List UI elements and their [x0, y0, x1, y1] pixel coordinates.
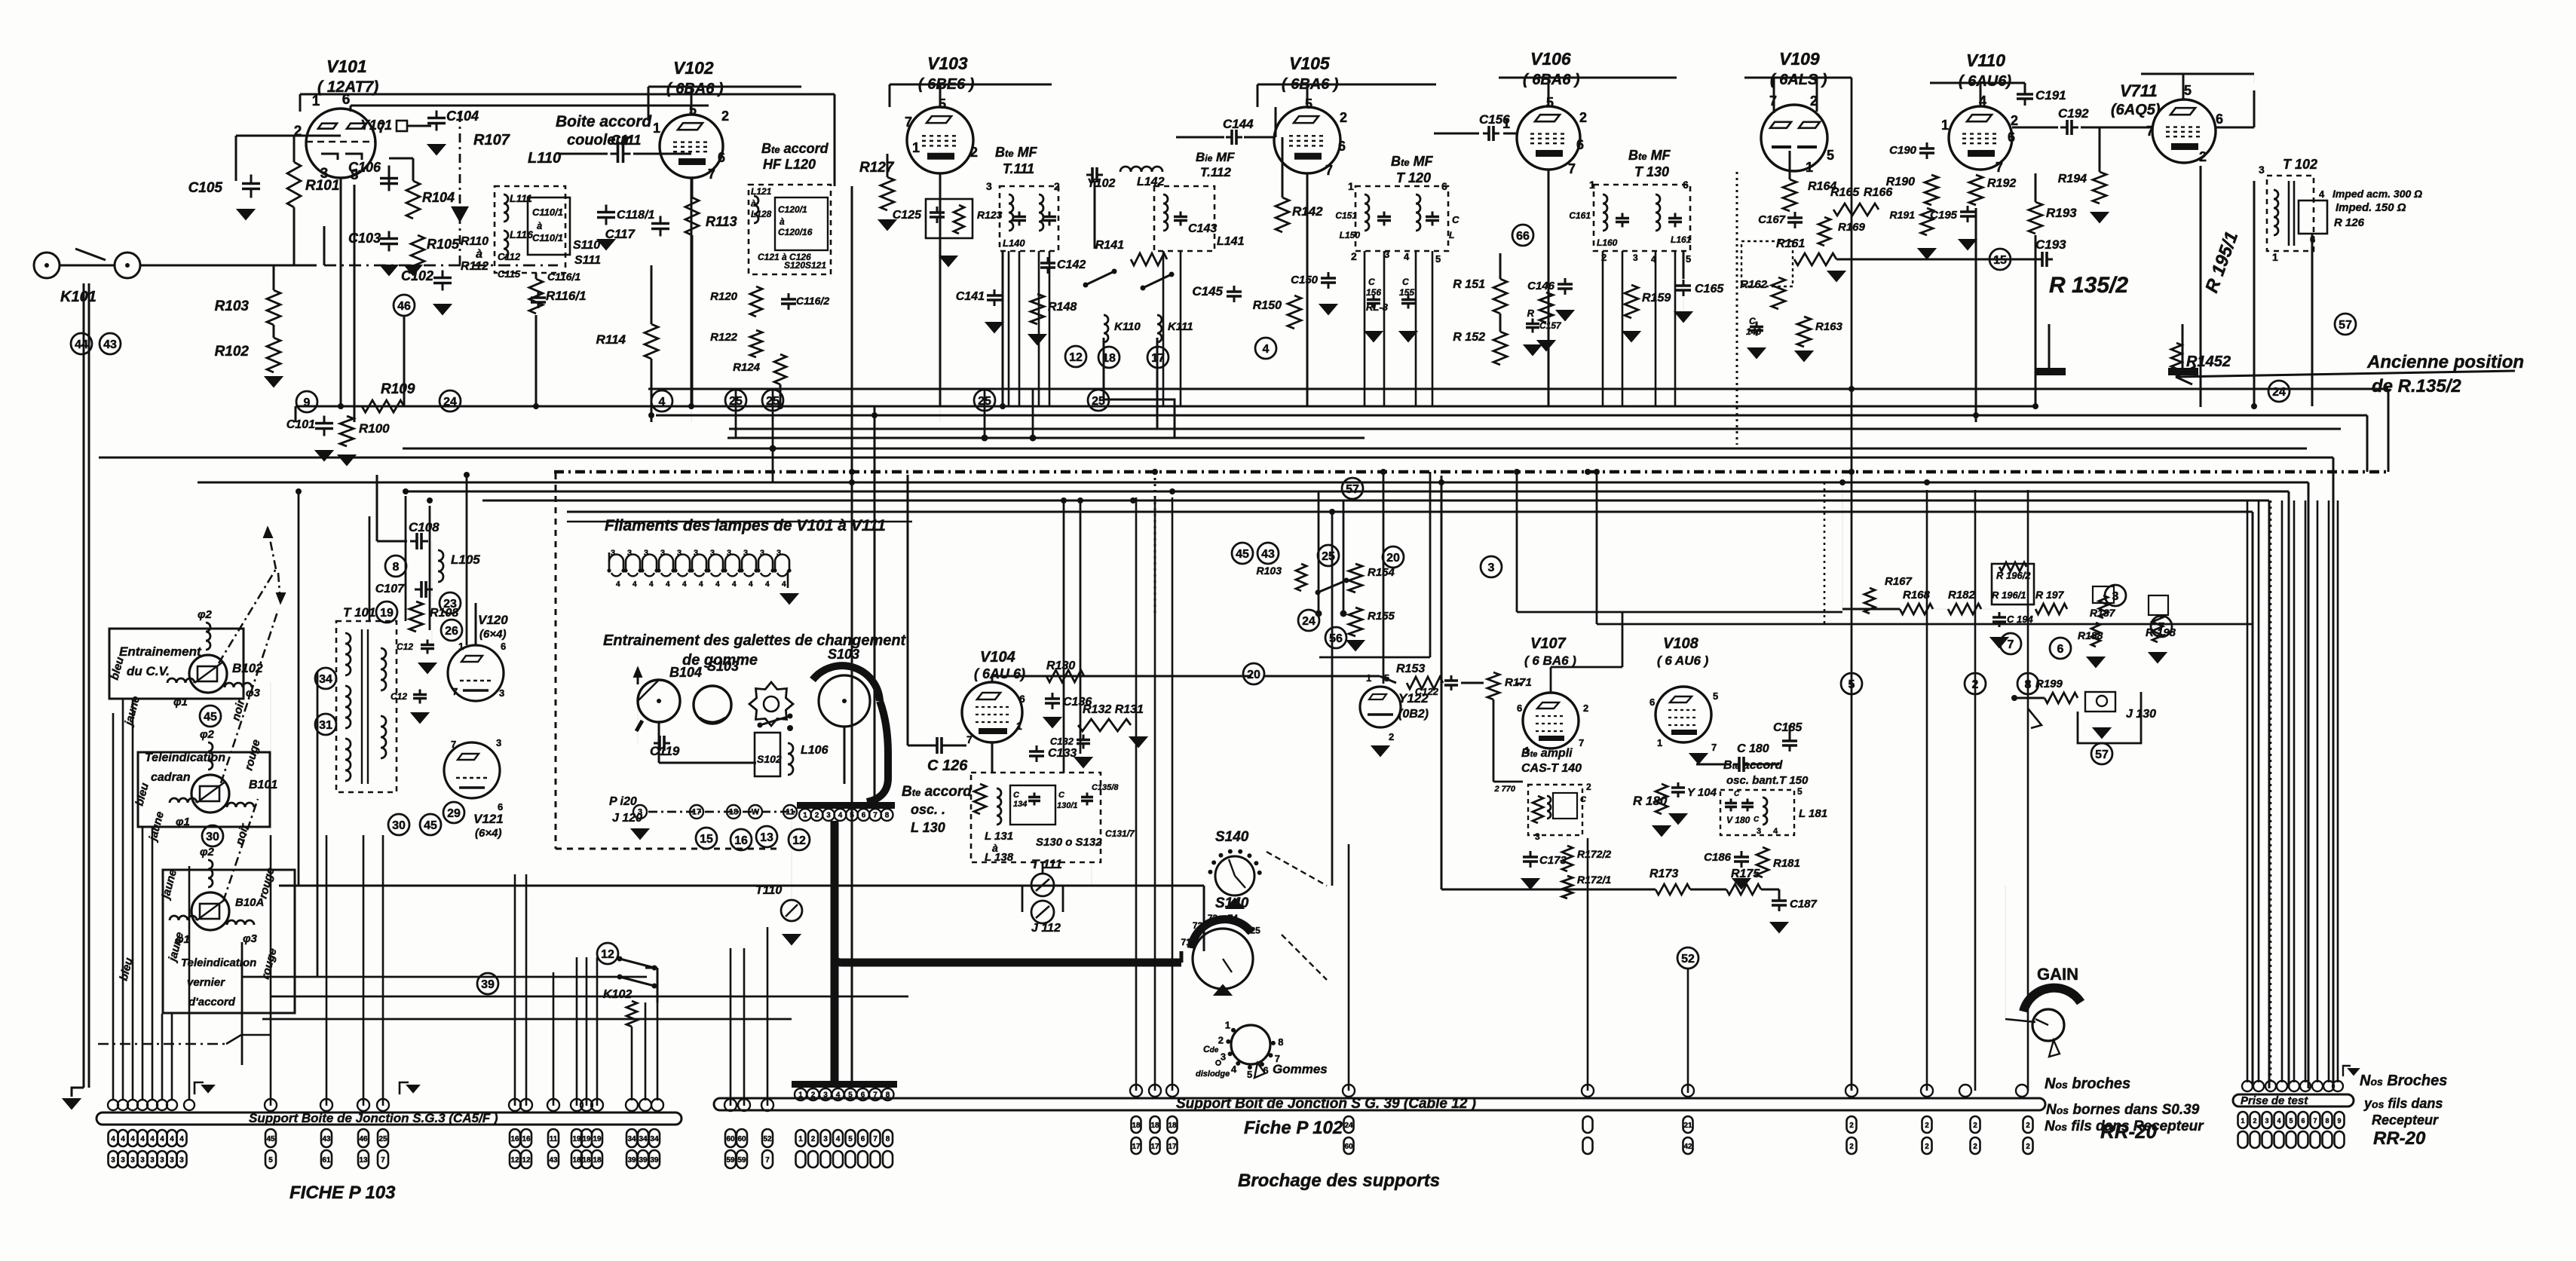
svg-text:C106: C106	[348, 160, 381, 175]
svg-text:C12: C12	[391, 691, 407, 702]
svg-text:19: 19	[593, 1135, 602, 1143]
svg-text:7: 7	[905, 115, 912, 130]
svg-text:R120: R120	[710, 290, 738, 303]
svg-text:C: C	[1402, 277, 1409, 287]
svg-text:1: 1	[1941, 118, 1949, 133]
svg-text:S120: S120	[784, 260, 805, 271]
svg-text:3: 3	[170, 1156, 174, 1165]
svg-text:45: 45	[266, 1135, 275, 1143]
svg-text:3: 3	[130, 1156, 135, 1165]
svg-text:1: 1	[312, 93, 320, 109]
svg-text:C151: C151	[1335, 210, 1357, 221]
svg-text:29: 29	[447, 807, 461, 820]
svg-text:R103: R103	[215, 298, 250, 314]
svg-text:6: 6	[2008, 130, 2015, 145]
svg-text:C102: C102	[401, 268, 433, 283]
svg-text:1: 1	[1657, 737, 1662, 748]
svg-text:S110: S110	[573, 239, 600, 252]
svg-text:34: 34	[650, 1135, 659, 1143]
svg-text:15: 15	[700, 833, 713, 846]
svg-text:18: 18	[593, 1156, 602, 1165]
svg-text:Prise de test: Prise de test	[2241, 1094, 2308, 1107]
svg-text:18: 18	[1168, 1122, 1177, 1130]
svg-text:R122: R122	[710, 331, 738, 344]
svg-text:1: 1	[1016, 720, 1022, 732]
svg-text:C107: C107	[375, 583, 405, 595]
svg-text:4: 4	[836, 1135, 841, 1143]
svg-text:C: C	[1754, 816, 1760, 824]
svg-text:8: 8	[393, 561, 400, 574]
svg-text:60: 60	[726, 1135, 735, 1143]
svg-text:6: 6	[2301, 1117, 2305, 1125]
svg-text:3: 3	[496, 737, 501, 748]
svg-text:60: 60	[737, 1135, 746, 1143]
svg-text:( 6AU6): ( 6AU6)	[1959, 73, 2011, 90]
svg-text:R190: R190	[1886, 176, 1915, 188]
svg-text:C125: C125	[893, 209, 922, 222]
svg-text:25: 25	[1092, 395, 1105, 408]
svg-text:FICHE P 103: FICHE P 103	[289, 1183, 396, 1203]
svg-text:3: 3	[611, 549, 615, 558]
svg-text:Boite accord: Boite accord	[556, 113, 652, 130]
svg-text:9: 9	[304, 396, 311, 409]
svg-text:2: 2	[1054, 180, 1060, 192]
svg-text:K101: K101	[60, 289, 96, 305]
svg-text:L140: L140	[1003, 237, 1025, 249]
svg-text:C119: C119	[650, 744, 680, 758]
svg-text:18: 18	[729, 808, 738, 817]
svg-text:6: 6	[1517, 702, 1522, 714]
svg-text:R199: R199	[2035, 678, 2063, 690]
svg-text:C133: C133	[1048, 747, 1077, 760]
svg-text:L 181: L 181	[1799, 807, 1827, 820]
svg-text:1: 1	[1348, 180, 1354, 192]
svg-text:C185: C185	[1773, 721, 1803, 734]
svg-text:C193: C193	[2035, 237, 2066, 252]
svg-text:C: C	[1013, 791, 1020, 800]
svg-text:T.111: T.111	[1003, 161, 1034, 176]
svg-text:R167: R167	[1885, 575, 1913, 588]
svg-text:25: 25	[1322, 550, 1335, 563]
svg-text:2: 2	[1925, 1143, 1929, 1151]
svg-text:6: 6	[861, 1135, 865, 1143]
svg-text:43: 43	[103, 338, 117, 351]
svg-text:1: 1	[2241, 1117, 2244, 1125]
svg-text:4: 4	[682, 580, 687, 589]
svg-text:4: 4	[782, 580, 786, 589]
svg-text:7: 7	[1711, 742, 1717, 753]
svg-text:18: 18	[1132, 1122, 1141, 1130]
svg-text:34: 34	[639, 1135, 648, 1143]
svg-text:24: 24	[2272, 386, 2286, 399]
svg-text:24: 24	[443, 396, 457, 409]
svg-text:2: 2	[1973, 1122, 1977, 1130]
svg-text:17: 17	[1132, 1143, 1141, 1151]
svg-text:C115: C115	[498, 268, 521, 280]
svg-text:R 197: R 197	[2035, 589, 2065, 601]
svg-text:T.112: T.112	[1200, 165, 1231, 179]
svg-text:C150: C150	[1291, 274, 1319, 286]
svg-text:R162: R162	[1740, 278, 1768, 291]
svg-text:R148: R148	[1048, 301, 1077, 314]
svg-text:8: 8	[2325, 1117, 2329, 1125]
svg-text:GAIN: GAIN	[2037, 965, 2078, 984]
svg-text:R172/1: R172/1	[1577, 874, 1611, 886]
svg-text:C: C	[1452, 214, 1460, 225]
svg-text:2: 2	[970, 145, 978, 160]
svg-text:1: 1	[458, 641, 464, 652]
svg-text:25: 25	[978, 395, 991, 408]
svg-text:17: 17	[1150, 1143, 1159, 1151]
svg-text:S121: S121	[805, 260, 826, 271]
svg-text:RL-8: RL-8	[1366, 301, 1389, 313]
svg-text:C111: C111	[611, 133, 641, 148]
svg-text:3: 3	[760, 549, 764, 558]
svg-text:C157: C157	[1539, 320, 1562, 331]
svg-text:T 120: T 120	[1396, 170, 1431, 185]
svg-text:6: 6	[2057, 643, 2064, 656]
svg-text:Bie MF: Bie MF	[1196, 150, 1235, 164]
svg-text:Recepteur: Recepteur	[2372, 1113, 2439, 1128]
svg-text:3: 3	[986, 180, 992, 192]
svg-text:20: 20	[1386, 552, 1400, 565]
svg-text:2: 2	[1925, 1122, 1929, 1130]
svg-text:39: 39	[650, 1156, 659, 1165]
svg-text:R 196/1: R 196/1	[1992, 589, 2026, 601]
svg-text:3: 3	[1757, 827, 1761, 836]
svg-text:3: 3	[694, 549, 698, 558]
svg-text:1: 1	[2272, 251, 2278, 263]
svg-text:Entrainement: Entrainement	[119, 644, 202, 659]
svg-text:20: 20	[1247, 669, 1260, 681]
svg-text:3: 3	[499, 687, 504, 699]
svg-text:3: 3	[1535, 831, 1540, 842]
svg-text:Nos bornes dans S0.39: Nos bornes dans S0.39	[2046, 1102, 2200, 1118]
svg-text:C192: C192	[2058, 106, 2089, 121]
svg-text:16: 16	[734, 834, 748, 847]
svg-text:3: 3	[140, 1156, 145, 1165]
svg-text:3: 3	[638, 808, 642, 817]
svg-text:39: 39	[639, 1156, 648, 1165]
svg-text:4: 4	[121, 1135, 125, 1143]
svg-text:CAS-T 140: CAS-T 140	[1521, 762, 1582, 775]
svg-text:39: 39	[627, 1156, 636, 1165]
svg-text:φ2: φ2	[200, 846, 215, 859]
svg-text:R102: R102	[215, 344, 250, 360]
svg-text:5: 5	[848, 1135, 853, 1143]
svg-text:17: 17	[692, 808, 701, 817]
svg-text:C167: C167	[1758, 213, 1786, 226]
svg-text:yos fils dans: yos fils dans	[2363, 1096, 2443, 1111]
svg-text:60: 60	[1344, 1143, 1353, 1151]
svg-text:L142: L142	[1137, 176, 1165, 188]
svg-text:B101: B101	[249, 779, 277, 791]
svg-text:Support Boite de Jonction: Support Boite de Jonction S.G.3 (CA5/F )	[249, 1111, 498, 1125]
svg-text:T 111: T 111	[1031, 857, 1062, 871]
svg-text:24: 24	[1302, 615, 1316, 628]
svg-text:S140: S140	[1215, 829, 1249, 845]
svg-text:C101: C101	[286, 418, 315, 431]
svg-text:7: 7	[1996, 160, 2003, 175]
svg-text:S130 o S132: S130 o S132	[1036, 836, 1102, 849]
svg-text:R123: R123	[977, 209, 1003, 221]
svg-text:V103: V103	[927, 54, 968, 73]
svg-text:V120: V120	[478, 613, 508, 627]
svg-text:J 112: J 112	[1031, 922, 1061, 935]
svg-text:2: 2	[1351, 250, 1357, 262]
svg-text:45: 45	[204, 711, 217, 724]
svg-text:( 6 AU6 ): ( 6 AU6 )	[1657, 653, 1709, 668]
svg-text:5: 5	[1827, 148, 1834, 163]
svg-text:R103: R103	[1257, 565, 1282, 577]
svg-text:L128: L128	[751, 209, 772, 219]
svg-text:C110/1: C110/1	[532, 232, 563, 243]
svg-text:6: 6	[718, 150, 725, 165]
svg-text:R181: R181	[1773, 857, 1800, 870]
svg-text:C110/1: C110/1	[532, 207, 563, 218]
svg-text:19: 19	[572, 1135, 581, 1143]
svg-text:C187: C187	[1790, 898, 1818, 911]
svg-text:12: 12	[1069, 351, 1083, 364]
svg-text:R127: R127	[859, 160, 895, 176]
svg-text:7: 7	[1568, 161, 1576, 176]
svg-text:à: à	[780, 216, 785, 227]
svg-text:74: 74	[1228, 913, 1239, 923]
svg-text:C195: C195	[1930, 209, 1958, 222]
svg-text:L: L	[1449, 230, 1454, 240]
svg-text:W: W	[752, 808, 760, 817]
svg-text:4: 4	[150, 1135, 155, 1143]
svg-text:C132: C132	[1050, 736, 1074, 747]
svg-text:C191: C191	[2035, 88, 2066, 103]
svg-text:P i20: P i20	[609, 795, 637, 808]
svg-text:4: 4	[1404, 251, 1410, 262]
svg-text:1: 1	[1589, 179, 1595, 191]
svg-text:6: 6	[1576, 137, 1584, 152]
svg-text:7: 7	[2313, 1117, 2317, 1125]
svg-text:φ1: φ1	[176, 816, 190, 828]
svg-text:R113: R113	[706, 214, 737, 229]
svg-text:5: 5	[1797, 786, 1803, 797]
svg-text:R109: R109	[381, 381, 415, 397]
svg-text:45: 45	[1236, 548, 1249, 561]
svg-text:Nos Broches: Nos Broches	[2360, 1073, 2447, 1089]
svg-text:R163: R163	[1815, 320, 1843, 333]
svg-text:2: 2	[1973, 1143, 1977, 1151]
svg-text:3: 3	[2112, 590, 2119, 603]
svg-text:3: 3	[660, 549, 665, 558]
svg-text:57: 57	[2339, 319, 2352, 332]
svg-text:R165: R165	[1830, 186, 1860, 199]
svg-text:C190: C190	[1889, 144, 1917, 157]
svg-text:5: 5	[2289, 1117, 2293, 1125]
svg-text:25: 25	[766, 395, 780, 408]
svg-text:2: 2	[2253, 1117, 2256, 1125]
svg-text:12: 12	[510, 1156, 519, 1165]
svg-text:R132 R131: R132 R131	[1083, 703, 1144, 716]
svg-text:R 151: R 151	[1453, 278, 1485, 291]
svg-text:C117: C117	[605, 227, 636, 241]
svg-text:L161: L161	[1671, 234, 1692, 245]
svg-text:21: 21	[1683, 1122, 1692, 1130]
svg-text:C144: C144	[1223, 117, 1254, 131]
svg-text:R114: R114	[596, 332, 626, 347]
svg-text:C118/1: C118/1	[617, 209, 655, 222]
svg-text:18: 18	[1150, 1122, 1159, 1130]
svg-text:2: 2	[1583, 702, 1588, 714]
svg-text:C135/8: C135/8	[1092, 783, 1119, 792]
svg-text:C120/1: C120/1	[778, 204, 807, 215]
svg-text:4: 4	[838, 812, 843, 820]
svg-text:C141: C141	[956, 290, 985, 303]
svg-text:RR-20: RR-20	[2100, 1120, 2158, 1143]
svg-text:φ3: φ3	[243, 932, 258, 945]
svg-text:7: 7	[2146, 124, 2154, 139]
svg-text:1: 1	[653, 121, 660, 136]
svg-text:R154: R154	[1368, 566, 1395, 579]
svg-text:31: 31	[319, 719, 332, 732]
svg-text:Bte ampli: Bte ampli	[1521, 747, 1573, 760]
svg-text:6: 6	[1683, 179, 1689, 191]
svg-text:45: 45	[424, 819, 437, 832]
svg-text:K102: K102	[603, 988, 632, 1001]
svg-text:de R.135/2: de R.135/2	[2372, 376, 2461, 396]
svg-text:1: 1	[912, 140, 920, 155]
svg-text:6: 6	[1019, 693, 1025, 705]
svg-text:Bte MF: Bte MF	[1628, 148, 1671, 163]
svg-text:7: 7	[708, 167, 715, 182]
svg-text:Imped acm. 300 Ω: Imped acm. 300 Ω	[2332, 188, 2422, 200]
svg-text:φ2: φ2	[198, 608, 213, 621]
svg-text:R153: R153	[1396, 663, 1425, 675]
svg-text:46: 46	[359, 1135, 368, 1143]
svg-text:L116: L116	[510, 228, 533, 240]
svg-text:R101: R101	[305, 178, 339, 194]
svg-text:30: 30	[392, 819, 406, 832]
svg-text:4: 4	[130, 1135, 135, 1143]
svg-text:57: 57	[1346, 483, 1359, 496]
svg-text:Brochage des supports: Brochage des supports	[1238, 1171, 1440, 1191]
svg-text:4: 4	[1773, 827, 1778, 836]
svg-text:C: C	[1734, 790, 1740, 798]
svg-text:R173: R173	[1649, 868, 1678, 880]
svg-text:130/1: 130/1	[1057, 801, 1078, 810]
svg-text:C142: C142	[1057, 259, 1086, 271]
svg-text:R116/1: R116/1	[546, 289, 587, 303]
svg-text:7: 7	[1579, 737, 1584, 748]
svg-text:C104: C104	[446, 109, 479, 124]
svg-text:Y101: Y101	[360, 118, 392, 133]
svg-text:3: 3	[160, 1156, 164, 1165]
svg-text:vernier: vernier	[187, 976, 225, 989]
svg-text:V101: V101	[326, 57, 367, 76]
svg-text:R192: R192	[1987, 177, 2016, 190]
svg-text:7: 7	[966, 733, 973, 745]
svg-text:V104: V104	[980, 649, 1015, 666]
svg-text:72: 72	[1193, 920, 1203, 931]
svg-text:25: 25	[729, 395, 743, 408]
svg-text:4: 4	[666, 580, 670, 589]
svg-text:4: 4	[1651, 254, 1656, 265]
svg-text:4: 4	[111, 1135, 115, 1143]
svg-text:5: 5	[1546, 95, 1554, 110]
svg-text:3: 3	[776, 549, 781, 558]
svg-text:134: 134	[1013, 800, 1027, 809]
svg-text:7: 7	[381, 1156, 385, 1165]
svg-text:V106: V106	[1530, 49, 1571, 69]
svg-text:(6×4): (6×4)	[479, 628, 506, 641]
svg-text:59: 59	[737, 1156, 746, 1165]
svg-text:C: C	[1058, 791, 1065, 800]
svg-text:1: 1	[1806, 160, 1813, 175]
svg-text:R110: R110	[461, 235, 489, 248]
svg-text:9: 9	[2337, 1117, 2341, 1125]
svg-text:à: à	[476, 248, 482, 261]
svg-text:R104: R104	[422, 190, 455, 205]
svg-text:Teleindication: Teleindication	[145, 751, 225, 764]
svg-text:Bte MF: Bte MF	[1391, 154, 1434, 169]
svg-text:T 102: T 102	[2283, 157, 2317, 172]
svg-text:2: 2	[2199, 149, 2207, 164]
svg-text:R141: R141	[1095, 239, 1124, 252]
svg-text:3: 3	[1633, 253, 1638, 263]
svg-text:C103: C103	[348, 231, 381, 246]
svg-text:φ1: φ1	[173, 696, 188, 709]
svg-text:à: à	[537, 220, 542, 231]
svg-text:7: 7	[2008, 638, 2014, 651]
svg-text:39: 39	[481, 978, 495, 991]
svg-text:2: 2	[2026, 1143, 2030, 1151]
svg-text:R112: R112	[461, 260, 489, 273]
svg-text:16: 16	[510, 1135, 519, 1143]
svg-text:6: 6	[1441, 180, 1447, 192]
svg-text:4: 4	[633, 580, 637, 589]
svg-text:2: 2	[2026, 1122, 2030, 1130]
svg-text:5: 5	[1435, 253, 1441, 265]
svg-text:Support Boit de Jonction: Support Boit de Jonction S G. 39 (Cable …	[1176, 1096, 1476, 1112]
svg-text:7: 7	[765, 1156, 770, 1165]
svg-text:34: 34	[319, 673, 332, 686]
svg-text:V110: V110	[1966, 51, 2005, 70]
svg-text:L150: L150	[1340, 230, 1361, 240]
svg-text:2: 2	[1579, 110, 1587, 125]
svg-text:C112: C112	[498, 251, 521, 262]
svg-text:dislodge: dislodge	[1196, 1070, 1230, 1079]
svg-text:V711: V711	[2120, 81, 2158, 100]
svg-text:Ancienne position: Ancienne position	[2366, 352, 2524, 372]
svg-text:3: 3	[710, 549, 715, 558]
svg-text:φ2: φ2	[200, 728, 215, 741]
svg-text:R193: R193	[2046, 206, 2077, 220]
svg-text:2: 2	[1340, 110, 1347, 125]
svg-text:S111: S111	[574, 254, 601, 267]
svg-text:V107: V107	[1530, 635, 1567, 652]
svg-text:57: 57	[2095, 748, 2109, 761]
svg-text:C156: C156	[1479, 112, 1510, 127]
svg-text:61: 61	[322, 1156, 331, 1165]
svg-text:R150: R150	[1253, 299, 1282, 312]
svg-text:2: 2	[1586, 782, 1591, 792]
svg-text:S140: S140	[1215, 895, 1249, 911]
svg-text:4: 4	[179, 1135, 184, 1143]
svg-text:Filaments des lampes de V101 à: Filaments des lampes de V101 à V111	[605, 517, 886, 534]
svg-text:L160: L160	[1597, 237, 1618, 248]
svg-text:3: 3	[826, 812, 831, 820]
svg-text:5: 5	[1713, 690, 1718, 702]
svg-text:3: 3	[743, 549, 748, 558]
svg-text:44: 44	[75, 338, 88, 351]
svg-text:11: 11	[550, 1135, 558, 1143]
